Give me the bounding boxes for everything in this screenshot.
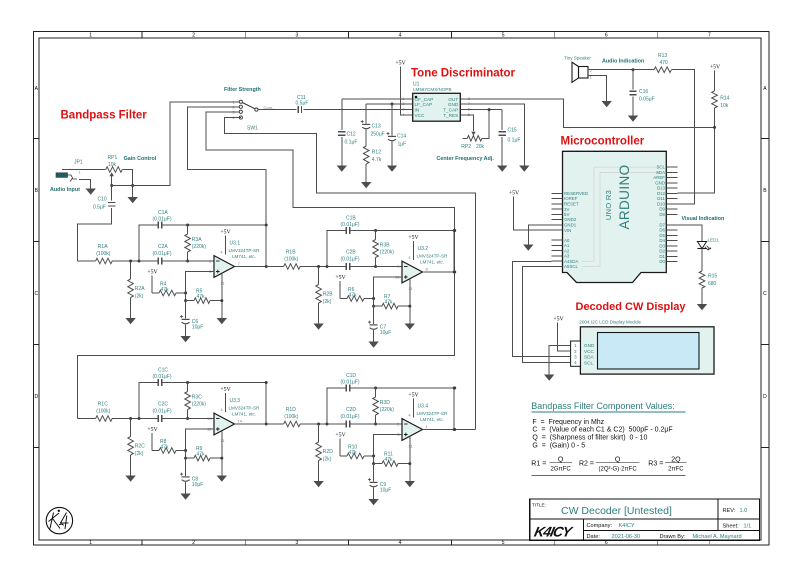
svg-text:10μF: 10μF [380,488,392,494]
svg-text:47k: 47k [385,300,394,306]
capacitor C1D [341,373,360,392]
svg-text:10k: 10k [108,162,117,168]
svg-text:REV:: REV: [723,508,736,514]
wire C1C to feedback node [162,383,267,425]
svg-text:7: 7 [708,540,711,546]
svg-text:C13: C13 [372,124,381,130]
svg-text:1/1: 1/1 [744,524,752,530]
svg-text:+5V: +5V [710,65,721,71]
svg-text:47k: 47k [349,293,358,299]
svg-text:Q = (Sharpness of filter ski: Q = (Sharpness of filter skirt) 0 - 10 [532,435,647,442]
svg-text:R13: R13 [658,53,667,59]
svg-text:RP1: RP1 [108,155,118,161]
svg-text:R2C: R2C [135,444,145,450]
svg-text:C1A: C1A [158,210,168,216]
svg-text:6: 6 [605,540,608,546]
wire U3.3 pin11 to ground [221,432,223,476]
capacitor C2D [327,407,402,428]
wire jack tip to RP1 [62,169,106,171]
svg-text:T_RES: T_RES [443,113,458,118]
ground [125,318,135,324]
node U3.2 output junction [453,229,456,232]
ground [180,336,190,342]
svg-text:C1B: C1B [346,216,356,222]
svg-text:C2C: C2C [158,402,168,408]
svg-text:R1C: R1C [98,402,108,408]
resistor R1A [78,258,140,264]
svg-text:D0: D0 [659,259,665,264]
node U3.1 output junction [265,224,268,227]
svg-text:Center Frequency Adj.: Center Frequency Adj. [437,156,495,162]
svg-text:10k: 10k [720,103,729,109]
svg-text:680: 680 [708,281,717,287]
svg-text:+5V: +5V [395,61,406,67]
svg-text:4: 4 [399,540,402,546]
svg-text:SW1: SW1 [247,125,258,131]
svg-text:2πFC: 2πFC [668,466,684,472]
svg-text:(0.01μF): (0.01μF) [341,380,360,386]
svg-text:A4SDA: A4SDA [564,259,578,264]
svg-text:3: 3 [296,540,299,546]
svg-text:C12: C12 [347,131,356,137]
svg-text:7: 7 [708,33,711,39]
svg-text:C1C: C1C [158,368,168,374]
wire R13 to D10 [672,70,695,204]
ground [405,324,415,330]
ground [368,499,378,505]
wire R8 junction down [185,451,187,459]
wire feedback C1B [327,231,346,267]
svg-text:47k: 47k [197,294,206,300]
resistor R9 [186,446,222,461]
svg-text:R1D: R1D [286,407,296,413]
potentiometer RP1 [106,155,123,185]
svg-text:VCC: VCC [584,349,595,354]
ground [217,476,227,482]
LED LED1 [697,238,719,251]
op-amp U3.2 [395,235,448,291]
svg-text:+5V: +5V [335,275,346,281]
svg-text:+5V: +5V [220,230,231,236]
resistor R2C [128,419,145,476]
svg-text:5: 5 [502,33,505,39]
svg-text:10μF: 10μF [192,482,204,488]
svg-text:(100k): (100k) [284,414,299,420]
ground [697,304,707,310]
wire C1B to feedback node [350,231,455,273]
capacitor C2B [327,250,402,271]
svg-text:R3B: R3B [380,243,390,249]
svg-text:GND: GND [448,102,459,107]
capacitor C2C [139,402,214,423]
capacitor C10 [93,186,115,211]
wire wiper node to switch contact 1 [112,102,239,186]
svg-text:TITLE:: TITLE: [532,502,546,507]
svg-text:LM741, etc.: LM741, etc. [232,254,256,259]
svg-text:D3: D3 [659,243,665,248]
svg-text:C2B: C2B [346,250,356,256]
node speaker junction [632,68,635,71]
svg-text:10μF: 10μF [192,325,204,331]
svg-text:2021-06-30: 2021-06-30 [612,534,641,540]
ground [128,197,138,203]
svg-text:D1: D1 [659,254,665,259]
svg-text:VIN: VIN [564,228,571,233]
wire U1 T_RES to RP2 wiper [466,115,473,131]
svg-text:R15: R15 [708,274,717,280]
svg-text:47k: 47k [161,287,170,293]
svg-text:F = Frequency in Mhz: F = Frequency in Mhz [532,419,604,426]
svg-text:K4ICY: K4ICY [533,524,575,540]
node R1C junction [129,417,132,420]
svg-text:R1 =: R1 = [531,461,546,468]
svg-text:R2A: R2A [135,286,145,292]
wire feedback C1D [327,388,346,424]
wire D7 to LED1 [678,225,703,242]
svg-text:4.7k: 4.7k [372,157,382,163]
svg-text:Sheet:: Sheet: [723,524,740,530]
svg-text:U3.2: U3.2 [418,246,429,252]
svg-text:A5SCL: A5SCL [564,264,578,269]
svg-text:LM741, etc.: LM741, etc. [420,417,444,422]
svg-text:Tiny Speaker: Tiny Speaker [564,56,591,61]
ground [313,324,323,330]
resistor R15 [699,271,717,304]
svg-text:0.1μF: 0.1μF [345,139,358,145]
svg-text:C2D: C2D [346,407,356,413]
svg-text:14: 14 [238,418,243,423]
node R1A junction [129,260,132,263]
wire contact2 to U3.1 output [188,107,267,267]
wire C10 to stage A input [78,208,112,261]
wire R6 junction down [373,299,375,307]
svg-text:JP1: JP1 [74,160,83,166]
resistor R1D [266,421,327,427]
title block [530,499,760,540]
wire U3.1 output [235,266,267,268]
svg-text:C16: C16 [639,89,648,95]
resistor R10 [340,445,373,459]
svg-text:LMV324TP-SR: LMV324TP-SR [417,411,449,416]
svg-text:6: 6 [605,33,608,39]
capacitor C12 [338,99,406,166]
svg-text:20k: 20k [476,144,485,150]
svg-text:LM741, etc.: LM741, etc. [420,259,444,264]
svg-text:R2D: R2D [323,449,333,455]
svg-text:A2: A2 [564,248,570,253]
svg-text:0.5μF: 0.5μF [296,101,309,107]
svg-text:Visual Indication: Visual Indication [682,216,725,222]
svg-text:Bandpass Filter Component Valu: Bandpass Filter Component Values: [531,401,674,411]
svg-text:C10: C10 [98,196,107,202]
svg-text:D10: D10 [657,201,666,206]
microcontroller A1 Arduino UNO R3 [552,151,678,282]
svg-text:47k: 47k [385,457,394,463]
svg-text:R1A: R1A [98,244,108,250]
svg-text:U3.4: U3.4 [418,404,429,410]
svg-text:47k: 47k [197,452,206,458]
wire arduino A5SCL to LCD SCL [523,267,571,363]
resistor R2D [316,424,333,481]
capacitor C1B [341,216,360,235]
svg-text:R14: R14 [720,96,729,102]
wire U3.2 pin11 to ground [409,280,411,324]
resistor R13 [633,53,672,73]
svg-text:C: C [763,291,767,297]
svg-text:RESET: RESET [564,202,579,207]
logo K4ICY stylized [533,524,575,540]
wire feedback C1A [139,225,158,261]
ground [217,318,227,324]
svg-text:(2Q²-G)·2πFC: (2Q²-G)·2πFC [599,466,638,472]
svg-text:U3.3: U3.3 [230,398,241,404]
svg-text:+5V: +5V [220,387,231,393]
svg-text:0.1μF: 0.1μF [508,137,521,143]
svg-text:Q: Q [615,456,621,463]
ground [523,245,533,251]
svg-text:LED1: LED1 [708,238,720,243]
resistor R1B [266,264,327,270]
resistor R4 [152,282,185,296]
ground [180,494,190,500]
wire R4 junction down [185,293,187,301]
IC U1 LM567 [402,82,471,122]
svg-text:SDA: SDA [584,355,595,360]
node U3.3 output junction [265,381,268,384]
svg-text:2: 2 [192,33,195,39]
resistor R3A [185,225,207,261]
svg-text:GND: GND [655,180,665,185]
capacitor C14 electrolytic [387,103,407,166]
wire U3.3 output [235,423,267,425]
svg-text:LMV324TP-SR: LMV324TP-SR [229,406,261,411]
svg-text:Gain Control: Gain Control [124,156,157,162]
svg-text:RP2: RP2 [461,144,471,150]
svg-text:A1: A1 [564,243,570,248]
ground [497,166,507,172]
svg-text:Date:: Date: [587,534,601,540]
svg-text:Bandpass Filter: Bandpass Filter [61,110,148,122]
wire C1D to feedback node [350,388,455,430]
svg-text:GND2: GND2 [564,217,577,222]
resistor R1C [78,416,140,422]
svg-text:(0.01μF): (0.01μF) [153,251,172,257]
svg-text:GND: GND [584,343,595,348]
resistor R3B [373,231,395,267]
svg-text:1μF: 1μF [398,141,407,147]
svg-text:LM741, etc.: LM741, etc. [232,411,256,416]
ground [602,101,612,107]
svg-text:(2k): (2k) [323,299,332,305]
svg-text:R12: R12 [372,150,381,156]
speaker LS1 tiny speaker [564,56,593,83]
wire feedback C1C [139,383,158,419]
wire U3.2 output [423,271,455,273]
svg-text:Drawn By:: Drawn By: [660,534,686,540]
svg-text:LMV324TP-SR: LMV324TP-SR [417,254,449,259]
svg-text:R3C: R3C [192,395,202,401]
resistor R11 [374,452,410,467]
wire U1 T_CAP to RP2 and C15 [466,109,502,111]
svg-text:4: 4 [399,33,402,39]
svg-text:CW Decoder [Untested]: CW Decoder [Untested] [561,505,672,517]
svg-text:SCL: SCL [584,360,594,365]
svg-text:LF_CAP: LF_CAP [415,102,433,107]
capacitor C16 [629,70,654,116]
svg-text:+5V: +5V [509,191,520,197]
wire LCD GND to ground [549,345,570,374]
wire arduino GND1 to ground [528,225,551,245]
svg-text:IOREF: IOREF [564,196,578,201]
op-amp U3.3 [207,387,260,443]
svg-text:1: 1 [89,540,92,546]
wire U1 OUT to D12 with pull-up [466,99,714,193]
svg-text:R3 =: R3 = [648,461,663,468]
resistor R3C [185,383,207,419]
resistor R5 [186,289,222,304]
svg-text:+5V: +5V [408,235,419,241]
capacitor C7 [368,306,391,341]
svg-text:R3D: R3D [380,400,390,406]
note Bandpass Filter Component Values [531,401,686,476]
wire U3.4 plus input [374,435,402,457]
ground [519,166,529,172]
svg-text:VCC: VCC [415,113,426,118]
wire RP1 right to ground [122,170,132,198]
svg-text:D: D [34,394,38,400]
connector JP1 audio jack [56,160,83,182]
op-amp U3.1 [209,230,260,286]
wire U3.2 plus input [374,277,402,299]
svg-text:(0.01μF): (0.01μF) [153,409,172,415]
wire U3.1 pin11 to ground [221,274,223,318]
logo K4 circle emblem [46,507,72,533]
svg-text:(220k): (220k) [192,402,207,408]
resistor R7 [374,294,410,309]
ground [361,182,371,188]
svg-text:K4ICY: K4ICY [619,523,635,529]
svg-text:5: 5 [502,540,505,546]
wire jack sleeve to ground [79,180,91,189]
svg-text:R3A: R3A [192,237,202,243]
svg-text:10μF: 10μF [380,330,392,336]
svg-text:(100k): (100k) [96,251,111,257]
svg-text:47k: 47k [349,450,358,456]
svg-text:D12: D12 [657,191,666,196]
LCD module 2004 I2C [571,319,714,374]
wire R10 junction down [373,456,375,464]
svg-text:C2A: C2A [158,244,168,250]
svg-text:LM567CMX/NOPB: LM567CMX/NOPB [413,87,452,92]
svg-text:(2k): (2k) [135,451,144,457]
svg-text:0.5μF: 0.5μF [93,205,106,211]
wire U3.4 output [423,429,455,431]
svg-text:(2k): (2k) [323,457,332,463]
svg-text:Q: Q [558,456,564,463]
wire U3.4 output to riser [455,429,476,431]
svg-text:C14: C14 [397,133,406,139]
switch SW1 filter strength [224,87,274,131]
svg-text:3: 3 [296,33,299,39]
resistor R12 [363,146,381,182]
capacitor C13 electrolytic [361,104,406,146]
svg-text:(220k): (220k) [192,244,207,250]
svg-text:C: C [34,291,38,297]
svg-text:(0.01μF): (0.01μF) [341,257,360,263]
svg-text:GND1: GND1 [564,223,577,228]
svg-text:1: 1 [89,33,92,39]
svg-text:C1D: C1D [346,373,356,379]
svg-text:UNO R3: UNO R3 [604,190,613,220]
svg-text:1.0: 1.0 [740,508,748,514]
capacitor C1A [153,210,172,229]
svg-text:(0.01μF): (0.01μF) [341,222,360,228]
svg-text:ARDUINO: ARDUINO [617,164,632,229]
svg-text:(220k): (220k) [380,250,395,256]
wire C11 to U1 IN [303,109,406,111]
capacitor C9 [368,464,391,499]
wire LED1 to R15 [701,249,703,272]
node R1B junction [317,265,320,268]
ground [544,375,554,381]
svg-text:D8: D8 [659,212,665,217]
svg-text:G = (Gain) 0 - 5: G = (Gain) 0 - 5 [532,442,585,449]
svg-text:470: 470 [660,60,669,66]
op-amp U3.4 [397,393,448,449]
svg-text:D5: D5 [659,233,665,238]
svg-text:Company:: Company: [587,523,613,529]
capacitor C6 [180,301,203,336]
capacitor C2A [139,244,214,265]
svg-text:(100k): (100k) [96,409,111,415]
svg-text:(0.01μF): (0.01μF) [153,374,172,380]
svg-text:Microcontroller: Microcontroller [561,136,645,148]
svg-text:+5V: +5V [147,427,158,433]
svg-text:Filter Strength: Filter Strength [224,87,261,93]
svg-text:D: D [763,394,767,400]
potentiometer RP2 [461,136,484,150]
ground [628,116,638,122]
svg-text:LMV324TP-SR: LMV324TP-SR [229,248,261,253]
wire U3.2 output junction extra dots [453,271,456,274]
svg-text:13: 13 [207,416,212,421]
node R1D junction [317,423,320,426]
capacitor C8 [180,458,203,493]
capacitor C15 [499,110,521,166]
svg-text:C = (Value of each C1 & C2): C = (Value of each C1 & C2) 500pF - 0.2μ… [532,427,672,434]
svg-text:Audio Input: Audio Input [50,187,80,193]
svg-text:U3.1: U3.1 [230,241,241,247]
svg-text:(0.01μF): (0.01μF) [153,217,172,223]
ground [125,476,135,482]
svg-text:+5V: +5V [553,317,564,323]
svg-text:2004 I2C LCD Display Module: 2004 I2C LCD Display Module [579,319,641,324]
svg-text:0.05μF: 0.05μF [639,96,655,102]
resistor R6 [340,287,373,301]
svg-text:47k: 47k [161,445,170,451]
svg-text:(220k): (220k) [380,407,395,413]
wire U1 GND to ground [466,104,524,166]
svg-text:R2 =: R2 = [579,461,594,468]
svg-text:R1B: R1B [286,250,296,256]
ground [405,481,415,487]
capacitor C1C [153,368,172,387]
svg-text:Audio Indication: Audio Indication [602,59,644,65]
wire arduino A4SDA to LCD SDA [513,261,571,356]
wire speaker pin1 to ground [588,76,607,102]
svg-text:250μF: 250μF [371,132,385,138]
svg-text:(2k): (2k) [135,294,144,300]
